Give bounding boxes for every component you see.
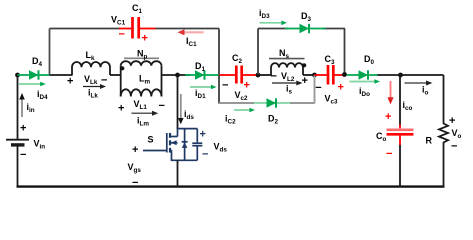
diode D2 [254, 98, 290, 125]
svg-text:−: − [222, 80, 228, 92]
svg-text:+: + [200, 129, 206, 141]
node A (input top-left junction) [15, 73, 20, 78]
diode D0 [347, 54, 381, 80]
node output junction [398, 73, 403, 78]
current arrow i_s [272, 81, 303, 96]
polarity dot Np [120, 66, 124, 70]
wire MOSFET source to bottom rail [177, 160, 179, 187]
wire D2 branch left vertical [218, 75, 220, 104]
wire Ns to node [303, 74, 315, 76]
value label +VLk- [67, 74, 107, 88]
svg-text:−: − [271, 71, 277, 83]
svg-text:+: + [449, 115, 455, 127]
current arrow i_ds [178, 94, 194, 124]
current arrow i_C1 [178, 29, 204, 48]
diode D3 [285, 11, 326, 33]
wire D2 branch bottom [219, 102, 315, 104]
node D2 return junction [312, 73, 317, 78]
inductor Lk [72, 50, 110, 75]
svg-text:−: − [119, 29, 125, 41]
value label -VL2+ [271, 71, 308, 88]
current arrow i_Do [350, 79, 381, 98]
inductor Lm [121, 74, 162, 97]
svg-text:R: R [426, 136, 433, 146]
svg-text:−: − [451, 141, 457, 153]
polarity dot Ns [302, 63, 306, 67]
current arrow i_co [387, 81, 412, 112]
svg-text:−: − [132, 177, 138, 189]
wire C1-loop right vertical [218, 29, 220, 76]
capacitor C3 [315, 54, 345, 106]
svg-text:−: − [202, 149, 208, 161]
svg-text:−: − [386, 148, 392, 160]
transformer secondary Ns [269, 48, 305, 75]
svg-text:+: + [142, 33, 148, 45]
value label +VL1- [118, 99, 165, 115]
svg-text:−: − [101, 75, 107, 87]
wire Np box to node S [162, 74, 191, 76]
value label +Vo- [449, 115, 462, 153]
svg-text:+: + [385, 111, 391, 123]
capacitor Co [376, 111, 414, 160]
wire D3-loop right vertical [344, 29, 346, 75]
capacitor Co branch wire [399, 75, 401, 128]
svg-text:+: + [302, 75, 308, 87]
wire D3-loop top rail [258, 28, 345, 30]
wire Lk to Np box [110, 74, 121, 76]
current arrow i_D4 [19, 82, 48, 101]
node after C2 [256, 73, 261, 78]
wire right edge bottom [443, 142, 445, 187]
wire C1-loop top rail [50, 28, 220, 30]
value label Vds [200, 129, 228, 161]
svg-text:−: − [159, 100, 165, 112]
wire left edge vertical (Vin branch top) [17, 75, 19, 139]
wire C1-loop left vertical [49, 29, 51, 76]
wire rail node to Ns [258, 74, 272, 76]
resistor R [426, 124, 449, 146]
svg-text:+: + [338, 82, 344, 94]
current arrow i_C2 [225, 108, 255, 126]
wire rail D4 to Lk [50, 74, 73, 76]
current arrow i_Lm [131, 111, 158, 128]
capacitor C2 [219, 53, 258, 102]
wire rail D0 to output corner [381, 74, 444, 76]
transistor S (MOSFET with body diode and capacitor) [143, 129, 202, 161]
pin label S [148, 135, 154, 145]
wire D2 branch right vertical [314, 75, 316, 104]
current arrow i_D1 [190, 85, 217, 100]
svg-text:+: + [132, 144, 138, 156]
current arrow i_Lk [83, 84, 106, 100]
wire battery to bottom rail [17, 146, 19, 188]
current arrow i_in [19, 93, 35, 117]
value label Vgs [128, 144, 142, 189]
current arrow i_D3 [259, 8, 287, 25]
wire bottom rail [17, 185, 445, 187]
capacitor C1 [111, 3, 156, 45]
wire right edge top [443, 75, 445, 124]
svg-text:−: − [20, 149, 26, 161]
svg-text:−: − [315, 82, 321, 94]
diode D1 [185, 61, 219, 80]
wire Co to bottom rail [399, 145, 401, 187]
svg-text:+: + [118, 103, 124, 115]
node C3/D0 junction [342, 72, 347, 77]
svg-text:S: S [148, 135, 154, 145]
diode D4 [18, 56, 50, 80]
wire D3-loop left vertical [257, 29, 259, 76]
transformer primary Np with magnetizing inductor Lm [121, 49, 162, 97]
svg-text:+: + [67, 76, 73, 88]
svg-text:+: + [20, 123, 26, 135]
svg-text:+: + [244, 80, 250, 92]
wire MOSFET drain [177, 75, 179, 129]
current arrow i_o [405, 81, 433, 97]
node switch junction [175, 73, 180, 78]
battery Vin [6, 123, 45, 162]
